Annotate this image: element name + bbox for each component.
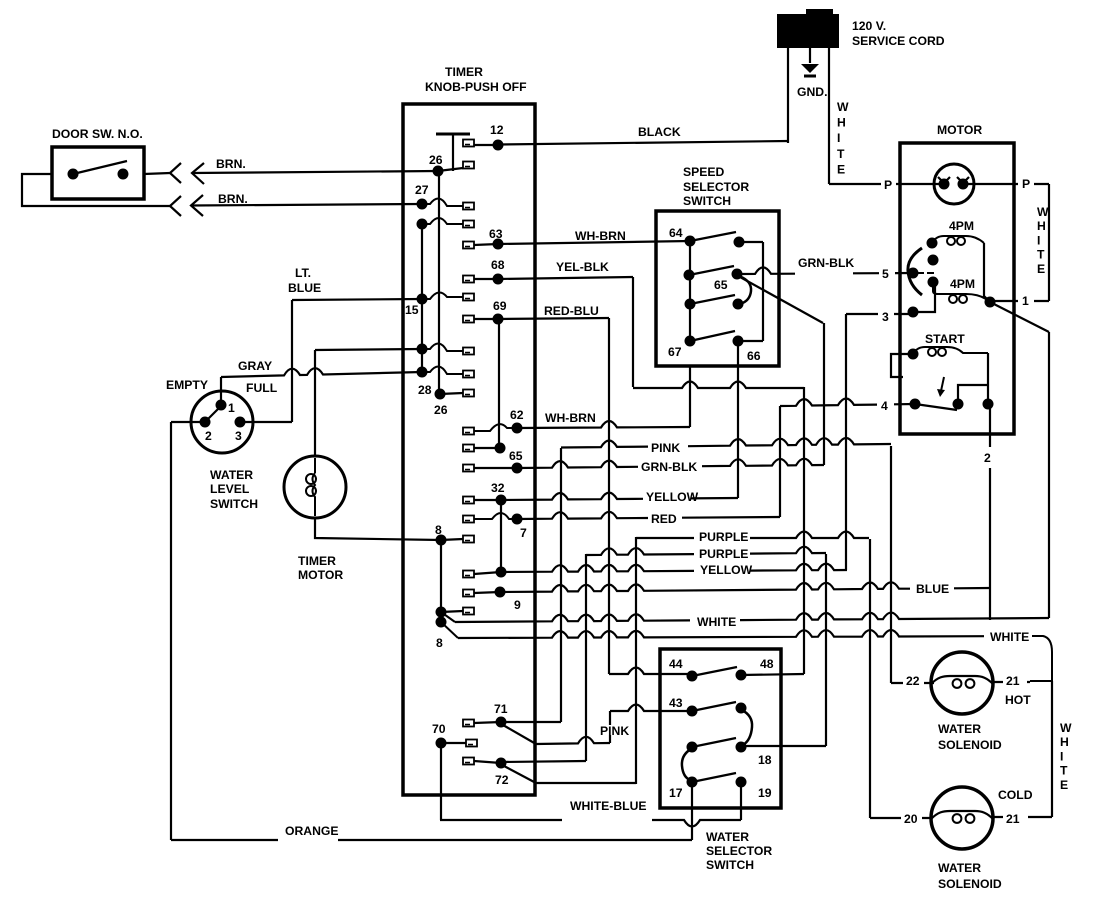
label 9 [513, 598, 521, 612]
svg-text:17: 17 [669, 786, 683, 800]
svg-text:LT.: LT. [295, 266, 311, 280]
wire 18 row [743, 745, 826, 747]
label 66 [746, 349, 761, 363]
wire 72 row [501, 761, 586, 762]
wire 72 lower run [536, 782, 636, 784]
svg-text:22: 22 [906, 674, 920, 688]
water selector 19 dot [736, 777, 747, 788]
label YELLOW [645, 490, 699, 504]
svg-text:HOT: HOT [1005, 693, 1031, 707]
wire ORANGE row [171, 839, 692, 841]
svg-text:SWITCH: SWITCH [706, 858, 754, 872]
label TIMER [297, 554, 336, 568]
label P [883, 178, 892, 192]
water selector 17 blade [692, 773, 736, 782]
svg-text:12: 12 [490, 123, 504, 137]
label 8 [434, 523, 442, 537]
timer contact 63 dot [493, 239, 504, 250]
wire 28 to tab [440, 393, 463, 394]
svg-text:9: 9 [514, 598, 521, 612]
wire 8 to tab [441, 539, 463, 540]
wavy tab to 7 [474, 513, 517, 519]
wire to water selector 44 [609, 668, 692, 675]
label 69 [492, 299, 507, 313]
label TIMER [444, 65, 483, 79]
wire BLACK from timer 12 to service cord [498, 141, 788, 145]
water selector 18 dot [736, 742, 747, 753]
wire BRN. upper to timer 26 [192, 171, 438, 173]
wire LT. BLUE to timer 15 [292, 299, 422, 300]
label I [1036, 233, 1044, 247]
svg-text:BLACK: BLACK [638, 125, 681, 139]
timer contact dot (white 1) [436, 607, 447, 618]
speed selector top right dot [734, 237, 745, 248]
wire tab to 65 [474, 467, 517, 469]
wire 71 row [501, 721, 561, 723]
svg-text:PURPLE: PURPLE [699, 547, 748, 561]
timer contact 8 dot [436, 535, 447, 546]
svg-text:3: 3 [235, 429, 242, 443]
label 12 [489, 123, 504, 137]
svg-text:W: W [1037, 205, 1049, 219]
wire purple2 drop to water selector 18 [825, 554, 827, 746]
label SELECTOR [682, 180, 749, 194]
label RED [650, 512, 677, 526]
label WATER [705, 830, 749, 844]
svg-text:7: 7 [520, 526, 527, 540]
svg-text:MOTOR: MOTOR [937, 123, 982, 137]
svg-text:FULL: FULL [246, 381, 278, 395]
motor coil1 left dot [927, 238, 938, 249]
door switch contact dot right [118, 169, 129, 180]
svg-text:67: 67 [668, 345, 682, 359]
svg-text:WHITE-BLUE: WHITE-BLUE [570, 799, 647, 813]
label GRAY [237, 359, 272, 373]
svg-text:RED: RED [651, 512, 677, 526]
svg-text:5: 5 [882, 267, 889, 281]
wire 19 drop [740, 782, 742, 820]
svg-text:LEVEL: LEVEL [210, 482, 250, 496]
timer tab 32 [463, 497, 474, 504]
svg-text:DOOR SW. N.O.: DOOR SW. N.O. [52, 127, 143, 141]
svg-text:4: 4 [881, 399, 888, 413]
timer contact 62 dot [512, 423, 523, 434]
timer contact 65 dot [512, 463, 523, 474]
water selector 17 dot [687, 777, 698, 788]
label 17 [668, 786, 683, 800]
svg-text:19: 19 [758, 786, 772, 800]
wire motor 3 row [846, 313, 913, 315]
timer tab 70 [466, 740, 477, 747]
motor coil1 right drop [984, 243, 990, 302]
wire 21 hot stub [992, 681, 1030, 683]
timer contact 15 dot [417, 294, 428, 305]
wire service cord white lead [828, 48, 830, 184]
label T [1036, 248, 1045, 262]
timer contact 9 dot [495, 587, 506, 598]
svg-text:I: I [1060, 749, 1063, 763]
label GRN-BLK [797, 256, 854, 270]
svg-text:18: 18 [758, 753, 772, 767]
speed selector 67 blade [690, 331, 735, 341]
timer bus 8 down [440, 540, 442, 622]
speed selector 67 dot [685, 336, 696, 347]
label T [1059, 764, 1068, 778]
water selector mid left dot [687, 742, 698, 753]
label P [1021, 177, 1030, 191]
svg-text:72: 72 [495, 773, 509, 787]
water selector 43R link down [742, 710, 752, 745]
water level switch circle [191, 391, 253, 453]
speed selector row3 blade [690, 295, 735, 304]
wire PURPLE row 2 [586, 547, 826, 555]
svg-text:66: 66 [747, 349, 761, 363]
speed selector row3 right dot [733, 299, 744, 310]
label MOTOR [936, 123, 982, 137]
svg-text:SPEED: SPEED [683, 165, 725, 179]
wire PINK riser from 71 [560, 448, 562, 722]
svg-text:26: 26 [429, 153, 443, 167]
timer contact 26 dot [433, 166, 444, 177]
svg-text:32: 32 [491, 481, 505, 495]
label SPEED [682, 165, 725, 179]
wire FULL water level 3 [240, 421, 292, 423]
svg-text:T: T [837, 147, 845, 161]
timer contact 68 dot [493, 274, 504, 285]
svg-text:WATER: WATER [706, 830, 749, 844]
timer contact dot (white 2) [436, 617, 447, 628]
label 68 [490, 258, 505, 272]
label HOT [1004, 693, 1031, 707]
label 21 [1005, 812, 1020, 826]
wire YEL-BLK riser [632, 277, 634, 387]
svg-text:48: 48 [760, 657, 774, 671]
svg-text:70: 70 [432, 722, 446, 736]
timer knob T-bar [436, 133, 470, 136]
label LEVEL [209, 482, 250, 496]
wire YELLOW row (timer 32) [501, 493, 738, 500]
wire 66 drop to yellow [737, 341, 739, 498]
timer TIMER KNOB-PUSH OFF box [403, 104, 535, 795]
timer bus 69 down [498, 319, 500, 448]
water selector 43 right dot [736, 703, 747, 714]
label WATER [937, 861, 981, 875]
wire GRN-BLK row (timer 65) [517, 459, 824, 468]
timer left bus 15 [421, 224, 423, 372]
svg-text:PURPLE: PURPLE [699, 530, 748, 544]
motor start contact dot [953, 399, 964, 410]
hot water solenoid coil [931, 676, 993, 684]
label 120 V. [851, 19, 897, 33]
wire white2 hook to 21 hot [1030, 636, 1052, 681]
svg-text:P: P [884, 178, 892, 192]
svg-text:BRN.: BRN. [218, 192, 248, 206]
timer tab (white 1) [463, 608, 474, 615]
wire RED-BLU timer 69 [498, 318, 609, 319]
label LT. [294, 266, 317, 280]
motor start coil left dot [908, 349, 919, 360]
wire riser to water selector 48 [803, 387, 805, 674]
motor contact dot (lower) [928, 277, 939, 288]
timer tab 7 [463, 516, 474, 523]
wire LT. BLUE riser [291, 300, 293, 422]
label 72 [494, 773, 509, 787]
wire purple1 drop [869, 539, 871, 818]
svg-text:WH-BRN: WH-BRN [575, 229, 626, 243]
wire 22 to hot solenoid [891, 682, 934, 684]
timer contact 72 dot [496, 758, 507, 769]
speed selector 64 blade [690, 232, 736, 241]
wire BLUE row (timer 9) [500, 582, 990, 592]
svg-text:120 V.: 120 V. [852, 19, 886, 33]
motor 3 link [913, 282, 935, 312]
svg-text:YELLOW: YELLOW [700, 563, 753, 577]
timer tab 28 [463, 390, 474, 397]
hot water solenoid circle [931, 652, 993, 714]
label 27 [414, 183, 429, 197]
svg-text:T: T [1037, 248, 1045, 262]
motor start contact link [958, 385, 988, 404]
motor start blade [915, 404, 957, 410]
wire door switch right lead [144, 173, 170, 174]
wire white1 riser [1048, 332, 1050, 618]
label 8 [435, 636, 443, 650]
motor protector tick left [938, 177, 950, 183]
motor centrifugal arc [908, 248, 922, 295]
timer motor circle [284, 456, 346, 518]
svg-text:GND.: GND. [797, 85, 827, 99]
svg-text:T: T [1060, 764, 1068, 778]
timer contact dot (timer motor) [417, 344, 428, 355]
label 4PM [949, 277, 975, 291]
wire PINK drop to hot solenoid 22 [890, 446, 892, 683]
svg-text:8: 8 [435, 523, 442, 537]
label START [924, 332, 965, 346]
svg-text:BLUE: BLUE [916, 582, 949, 596]
timer tab 12 [463, 140, 474, 147]
label WH-BRN [544, 411, 596, 425]
motor protector dot left [939, 179, 950, 190]
label WATER [209, 468, 253, 482]
label GND. [796, 85, 827, 99]
svg-text:W: W [837, 100, 849, 114]
svg-text:64: 64 [669, 226, 683, 240]
svg-text:WH-BRN: WH-BRN [545, 411, 596, 425]
wire PINK row [561, 438, 891, 448]
label E [836, 162, 845, 176]
motor start right dot [983, 399, 994, 410]
timer tab 9 [463, 590, 474, 597]
label 64 [668, 226, 683, 240]
water selector 44 blade [692, 667, 737, 676]
svg-text:W: W [1060, 721, 1072, 735]
motor protector dot right [958, 179, 969, 190]
label 18 [757, 753, 772, 767]
wire purple1 riser (from 72 diag) [635, 537, 637, 784]
speed selector left bus [689, 241, 691, 341]
wire top right to bus [739, 241, 763, 243]
label 1 [1021, 294, 1029, 308]
label 65 [508, 449, 523, 463]
wire purple2 riser from 72 [585, 554, 587, 761]
wavy 15 to tab [422, 292, 463, 299]
svg-text:21: 21 [1006, 812, 1020, 826]
cold water solenoid coil [931, 811, 993, 819]
label 19 [757, 786, 772, 800]
label I [836, 131, 844, 145]
timer tab 68 [463, 276, 474, 283]
label SOLENOID [937, 738, 1002, 752]
timer contact dot (end of 32 bus) [496, 567, 507, 578]
label PINK [599, 724, 630, 738]
timer motor coil [314, 458, 316, 516]
svg-text:2: 2 [205, 429, 212, 443]
label 62 [509, 408, 524, 422]
svg-text:WATER: WATER [210, 468, 253, 482]
label PURPLE [698, 547, 748, 561]
svg-text:27: 27 [415, 183, 429, 197]
connector arrow chevron 1 (BRN. upper) [170, 163, 181, 183]
wire WHITE service to motor P [829, 183, 944, 185]
svg-text:START: START [925, 332, 965, 346]
wavy to tab (timer motor) [422, 343, 463, 351]
wire yellow2 riser to motor 3 [845, 314, 847, 570]
wire tab to 71 [474, 722, 501, 723]
timer tab (timer motor) [463, 348, 474, 355]
wire PINK 71 diagonal [503, 725, 536, 744]
svg-text:GRN-BLK: GRN-BLK [798, 256, 854, 270]
svg-text:KNOB-PUSH OFF: KNOB-PUSH OFF [425, 80, 527, 94]
label W [1059, 721, 1072, 735]
label 28 [417, 383, 432, 397]
svg-text:8: 8 [436, 636, 443, 650]
svg-text:SOLENOID: SOLENOID [938, 877, 1002, 891]
svg-text:WATER: WATER [938, 722, 981, 736]
svg-text:4PM: 4PM [950, 277, 975, 291]
timer tab 72 [463, 758, 474, 765]
svg-text:YELLOW: YELLOW [646, 490, 699, 504]
water selector 17 link [682, 749, 691, 780]
svg-text:43: 43 [669, 696, 683, 710]
timer tab 27 [463, 203, 474, 210]
label 26 [433, 403, 448, 417]
svg-text:4PM: 4PM [949, 219, 974, 233]
wire white link hot 21 to cold 21 [1051, 681, 1053, 817]
door switch DOOR SW. N.O. box [52, 147, 144, 199]
water selector 43 blade [692, 702, 736, 711]
svg-text:GRAY: GRAY [238, 359, 272, 373]
speed selector 65 link down [739, 276, 751, 304]
water selector mid blade [692, 738, 736, 747]
timer tab 8 [463, 536, 474, 543]
connector arrow chevron 2 (BRN. upper) [192, 163, 204, 184]
label W [836, 100, 849, 114]
label BRN. [215, 157, 246, 171]
wire YELLOW row 2 (timer 32 bus) [501, 564, 847, 572]
timer contact 70 dot [436, 738, 447, 749]
wire to water selector 43 [610, 705, 692, 712]
label 21 [1005, 674, 1020, 688]
120V service cord plug body [777, 14, 839, 48]
wire PURPLE row 1 [636, 532, 869, 539]
label E [1036, 262, 1045, 276]
label WHITE [696, 615, 736, 629]
svg-text:H: H [1060, 735, 1069, 749]
label 67 [667, 345, 682, 359]
svg-text:WHITE: WHITE [697, 615, 736, 629]
svg-text:RED-BLU: RED-BLU [544, 304, 599, 318]
svg-text:15: 15 [405, 303, 419, 317]
svg-text:63: 63 [489, 227, 503, 241]
timer tab (32 bus) [463, 571, 474, 578]
timer contact dot (end of 69 bus) [495, 443, 506, 454]
timer tab 15 [463, 294, 474, 301]
speed selector 65 dot [732, 269, 743, 280]
label 44 [668, 657, 683, 671]
label COLD [997, 788, 1033, 802]
wire WHITE-BLUE row [440, 820, 741, 827]
label 15 [405, 303, 419, 317]
label ORANGE [284, 824, 339, 838]
timer tab (69 bus) [463, 445, 474, 452]
svg-text:E: E [1037, 262, 1045, 276]
wire timer motor top to timer [315, 349, 422, 350]
cold water solenoid circle [931, 787, 993, 849]
door switch contact dot left [68, 169, 79, 180]
svg-text:MOTOR: MOTOR [298, 568, 343, 582]
wire WH-BRN timer 62 to speed selector 67 [517, 421, 690, 428]
wire 21 cold stub [992, 816, 1052, 818]
wire tab to 63 [474, 244, 498, 245]
wire 20 to cold solenoid [870, 817, 932, 819]
timer contact 12 dot [493, 140, 504, 151]
motor protector circle [934, 164, 974, 204]
water level blade 2-1 [205, 407, 220, 422]
wire motor P to right [963, 183, 1049, 185]
motor protector tick right [957, 177, 969, 183]
wire bus to 66 [738, 340, 763, 342]
svg-text:SWITCH: SWITCH [683, 194, 731, 208]
wire white bracket P to 1 [1048, 184, 1050, 301]
wire motor 2 drop [989, 404, 991, 620]
svg-text:68: 68 [491, 258, 505, 272]
label 43 [668, 696, 683, 710]
water selector WATER SELECTOR SWITCH box [660, 649, 781, 808]
water level contact 2 dot [200, 417, 211, 428]
wire tab to 32 [474, 499, 501, 501]
svg-text:E: E [1060, 778, 1068, 792]
svg-text:PINK: PINK [651, 441, 680, 455]
timer tab (gray) [463, 371, 474, 378]
svg-text:20: 20 [904, 812, 918, 826]
timer contact 28 dot [435, 389, 446, 400]
motor START coil [913, 347, 988, 354]
motor start switch arrow [941, 377, 944, 391]
svg-text:I: I [837, 131, 840, 145]
label SWITCH [705, 858, 754, 872]
label T [836, 147, 845, 161]
svg-text:26: 26 [434, 403, 448, 417]
label 3 [881, 310, 889, 324]
label 71 [493, 702, 508, 716]
motor start bracket [891, 354, 913, 377]
label 26 [428, 153, 443, 167]
wire speed selector 67 drop [689, 366, 691, 427]
svg-text:1: 1 [228, 401, 235, 415]
label 7 [519, 526, 527, 540]
wire YEL-BLK timer 68 [498, 277, 633, 279]
timer tab 62 [463, 428, 474, 435]
